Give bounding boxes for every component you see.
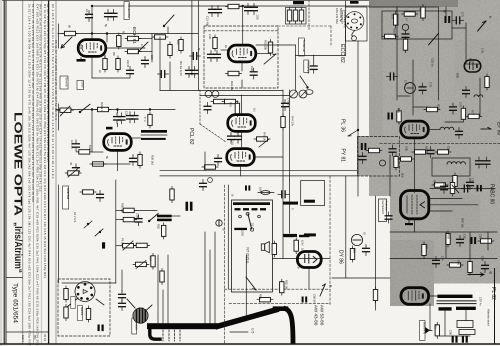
wire flyback bbox=[272, 258, 330, 260]
svg-text:C75: C75 bbox=[429, 82, 433, 87]
junction bbox=[91, 108, 93, 110]
svg-text:b 5: b 5 bbox=[251, 329, 255, 334]
dashed feed vertical bbox=[224, 185, 226, 343]
circle marker bbox=[208, 178, 213, 183]
svg-text:R23 2M: R23 2M bbox=[230, 81, 234, 91]
svg-text:R70: R70 bbox=[391, 14, 395, 19]
coil circle bbox=[380, 160, 386, 166]
resistor R74 bbox=[403, 37, 407, 53]
wire vertical mid bbox=[412, 60, 414, 115]
tube ECH81 Rö1 bbox=[78, 40, 106, 57]
arrow K bbox=[320, 284, 325, 296]
table column line 3 bbox=[40, 0, 42, 344]
resistor R11 bbox=[179, 37, 183, 53]
capacitor C84 bbox=[433, 257, 440, 268]
vert output transformer core bars bbox=[186, 202, 189, 211]
tube ECC82 triode a bbox=[228, 45, 256, 62]
wire r bbox=[256, 53, 271, 55]
label box Bildfang bbox=[63, 186, 69, 209]
svg-text:Gl: Gl bbox=[363, 232, 367, 235]
svg-text:C97 4n: C97 4n bbox=[479, 297, 483, 306]
svg-text:PY 81: PY 81 bbox=[340, 149, 346, 163]
svg-text:S2: S2 bbox=[251, 223, 255, 227]
capacitor bbox=[142, 57, 149, 68]
wire osc vertical bbox=[242, 6, 244, 44]
capacitor C40 bbox=[204, 103, 211, 114]
svg-text:6,3V: 6,3V bbox=[301, 240, 305, 246]
table outer line bbox=[55, 0, 57, 344]
wire long vertical B bbox=[289, 90, 291, 180]
wire socket feed bbox=[345, 0, 347, 7]
capacitor C3 bbox=[110, 10, 117, 21]
junction bbox=[91, 32, 93, 34]
svg-text:R76: R76 bbox=[437, 104, 441, 109]
wire g1 bbox=[221, 49, 228, 51]
sheet right border bbox=[494, 268, 496, 344]
svg-text:B: B bbox=[222, 229, 226, 231]
capacitor mains bbox=[278, 191, 289, 198]
svg-text:C41: C41 bbox=[231, 140, 235, 145]
resistor bbox=[168, 42, 172, 58]
voltage selector lever bbox=[248, 214, 252, 229]
svg-text:„Iris/Atrium“: „Iris/Atrium“ bbox=[12, 222, 23, 273]
potentiometer P3 bbox=[120, 244, 136, 248]
wire left edge bbox=[58, 185, 60, 283]
resistor R77 bbox=[461, 106, 465, 122]
svg-text:C21 40p: C21 40p bbox=[206, 16, 210, 27]
resistor R91 bbox=[435, 322, 439, 338]
svg-text:C83: C83 bbox=[479, 234, 483, 239]
switch S2 bbox=[149, 213, 158, 221]
svg-text:Type 651/654: Type 651/654 bbox=[12, 283, 19, 323]
capacitor C24 bbox=[208, 51, 215, 62]
wire PL82 to yoke bbox=[429, 295, 438, 297]
pot circle b bbox=[299, 90, 307, 98]
capacitor C80 bbox=[389, 145, 396, 156]
svg-text:Kanalwähler: Kanalwähler bbox=[127, 3, 131, 18]
socket top cap bbox=[350, 1, 359, 4]
capacitor C31 bbox=[118, 113, 125, 124]
shielded coil circle bbox=[405, 83, 416, 94]
capacitor C2 bbox=[105, 10, 112, 21]
resistor R4 bbox=[117, 33, 121, 49]
svg-text:P3 1M: P3 1M bbox=[121, 238, 125, 247]
linearity box bbox=[457, 321, 473, 328]
svg-text:ECH 81: ECH 81 bbox=[131, 27, 137, 44]
resistor R85 bbox=[446, 231, 450, 247]
heater winding bars bbox=[284, 235, 294, 237]
resistor R20 bbox=[226, 4, 242, 8]
svg-text:C48: C48 bbox=[481, 48, 485, 53]
svg-text:C28: C28 bbox=[250, 66, 254, 71]
junction bbox=[106, 32, 108, 34]
PABC ground stub bbox=[408, 219, 410, 223]
grid cap bold bbox=[106, 127, 113, 130]
capacitor bbox=[119, 300, 126, 311]
CRT neck down curve bbox=[150, 329, 160, 339]
tube PABC80 bbox=[401, 191, 429, 219]
svg-text:220V: 220V bbox=[241, 230, 245, 236]
tube PY81 Rö6 bbox=[227, 149, 255, 166]
resistor vert amp bbox=[170, 187, 174, 203]
wire bbox=[256, 44, 296, 46]
svg-text:R44 27k: R44 27k bbox=[291, 116, 295, 127]
N arrow bbox=[452, 185, 459, 193]
electrolytic C60 bbox=[302, 297, 304, 303]
capacitor C41 bbox=[228, 132, 235, 143]
svg-text:Ablenkeinheit: Ablenkeinheit bbox=[487, 309, 491, 326]
dashed gang line bbox=[199, 90, 201, 124]
svg-text:R97 1M: R97 1M bbox=[461, 218, 465, 228]
resistor R5 bbox=[125, 36, 141, 40]
svg-text:R50 56k: R50 56k bbox=[121, 203, 125, 214]
svg-text:NT 2023 b: NT 2023 b bbox=[246, 248, 250, 264]
svg-text:Tr 2: Tr 2 bbox=[143, 117, 147, 122]
tube DY86 bbox=[297, 252, 321, 268]
svg-text:85 31 07 4 SW 208 64 12 95 3 K: 85 31 07 4 SW 208 64 12 95 3 KB 417 52 0… bbox=[54, 40, 58, 120]
diode arrow bbox=[425, 327, 430, 334]
table footer line bbox=[6, 331, 49, 333]
svg-text:R52: R52 bbox=[157, 224, 161, 229]
svg-text:5p: 5p bbox=[197, 48, 201, 51]
tube PCL82 triode Rö4 bbox=[104, 134, 132, 151]
svg-text:UKW: UKW bbox=[81, 82, 85, 89]
resistor R43 bbox=[254, 137, 270, 141]
wire arrow branch bbox=[348, 130, 358, 136]
components above PABC bbox=[441, 183, 448, 194]
capacitor C85 bbox=[482, 262, 489, 273]
IF strip box bbox=[286, 8, 307, 25]
transformer core line bbox=[141, 134, 167, 136]
svg-text:R22 30k: R22 30k bbox=[264, 40, 268, 51]
capacitor top fill bbox=[200, 180, 207, 191]
resistor R27 bbox=[299, 8, 303, 24]
resistor R31 bbox=[148, 112, 152, 128]
ball pointer bbox=[127, 299, 135, 308]
svg-text:C72: C72 bbox=[461, 12, 465, 17]
resistor bbox=[138, 152, 142, 168]
svg-text:Si: Si bbox=[231, 194, 235, 197]
capacitor fill bbox=[97, 191, 104, 202]
svg-text:R88: R88 bbox=[457, 260, 461, 265]
switch diag top-left bbox=[138, 42, 148, 52]
svg-text:60: 60 bbox=[68, 25, 72, 28]
wire w bbox=[117, 110, 119, 114]
wire tube top lead bbox=[91, 6, 93, 38]
resistor R61 bbox=[272, 241, 276, 257]
output transformer winding bar 1 bbox=[141, 130, 167, 133]
resistor R30 bbox=[95, 107, 111, 111]
electrolytic C83 bbox=[471, 237, 473, 244]
resistor R90 bbox=[350, 246, 354, 262]
svg-text:0,1: 0,1 bbox=[301, 248, 305, 252]
wire bus 232 bbox=[390, 231, 497, 233]
capacitor C82 bbox=[457, 236, 464, 247]
remote socket bbox=[345, 12, 364, 31]
svg-text:PL 36: PL 36 bbox=[340, 119, 346, 132]
gray wires bbox=[452, 27, 466, 29]
electrolytic C91 bbox=[462, 336, 464, 343]
wire i bbox=[139, 38, 152, 40]
arrow right mid bbox=[481, 128, 491, 130]
capacitor C20 bbox=[209, 6, 216, 17]
wire feed bbox=[332, 277, 390, 279]
resistor bbox=[64, 305, 68, 321]
svg-text:SW 4: SW 4 bbox=[21, 335, 25, 342]
svg-text:Bildrohr a.: Bildrohr a. bbox=[423, 322, 427, 335]
wire bottom bus bbox=[62, 282, 116, 284]
resistor R60 bbox=[294, 238, 298, 254]
svg-text:Gemeinsch.: Gemeinsch. bbox=[381, 201, 385, 216]
capacitor C33 bbox=[131, 112, 138, 123]
capacitor C87 bbox=[385, 212, 392, 223]
wire bbox=[92, 163, 130, 165]
capacitor C70 bbox=[402, 30, 409, 41]
svg-text:C81 2n5 R64: C81 2n5 R64 bbox=[335, 8, 339, 24]
resistor bbox=[90, 162, 106, 166]
svg-text:Bildrohr: Bildrohr bbox=[80, 307, 83, 316]
CRT face edge bbox=[275, 306, 286, 311]
svg-text:C80: C80 bbox=[405, 146, 409, 151]
tube PL36 Rö5 bbox=[228, 115, 256, 132]
CRT face arc bbox=[286, 309, 294, 342]
coil L3 bbox=[440, 127, 454, 129]
yoke dashes below neck bbox=[162, 330, 164, 341]
small box bbox=[432, 158, 470, 176]
capacitor C22 bbox=[245, 4, 252, 15]
capacitor C86 bbox=[363, 245, 370, 256]
svg-text:Rö 2a 6,3V: Rö 2a 6,3V bbox=[179, 61, 183, 76]
tube EF80 a bbox=[464, 60, 480, 72]
resistor R54 bbox=[151, 253, 155, 269]
svg-text:Tonblende: Tonblende bbox=[302, 40, 306, 53]
tiny switch marks bbox=[99, 231, 101, 233]
white label box Gemeinschaft bbox=[379, 199, 387, 222]
capacitor C76 bbox=[450, 103, 457, 114]
yoke mid lines bbox=[437, 300, 476, 302]
resistor R72 bbox=[421, 5, 425, 21]
svg-text:2x 217 12k 4,7k 100 2M 50k 1k: 2x 217 12k 4,7k 100 2M 50k 1k 0,1 25,0 3… bbox=[28, 4, 32, 346]
resistor R32 bbox=[76, 150, 92, 154]
resistor chain R40 bbox=[211, 99, 227, 103]
secondary bar bbox=[234, 228, 247, 230]
svg-text:C20: C20 bbox=[208, 34, 212, 39]
grey printed region (right block) bbox=[357, 0, 500, 306]
wire PABC out triple bbox=[429, 198, 462, 200]
svg-text:R85: R85 bbox=[447, 234, 451, 239]
svg-text:R81: R81 bbox=[425, 146, 429, 151]
svg-text:PCL 82: PCL 82 bbox=[188, 128, 194, 145]
CRT flare diagonal bbox=[218, 310, 276, 326]
wire s bbox=[241, 64, 243, 72]
wire long vertical A bbox=[282, 90, 284, 180]
electrolytic C90 bbox=[452, 336, 454, 343]
wire h bbox=[106, 47, 146, 49]
capacitor bbox=[130, 155, 137, 166]
wires into yoke bbox=[157, 255, 159, 323]
capacitor C42 bbox=[235, 132, 242, 143]
svg-text:R54: R54 bbox=[149, 256, 153, 261]
svg-text:C90: C90 bbox=[449, 330, 453, 335]
wire bus bottom 2 bbox=[160, 175, 357, 177]
svg-text:R84: R84 bbox=[433, 180, 437, 185]
capacitor C6 bbox=[190, 53, 201, 60]
wire v bbox=[92, 151, 103, 153]
svg-text:C52 5n: C52 5n bbox=[431, 58, 435, 67]
trimmer C bbox=[310, 62, 317, 73]
wire white strip vertical bbox=[375, 196, 377, 310]
svg-text:L4: L4 bbox=[405, 18, 409, 21]
svg-text:R87: R87 bbox=[425, 244, 429, 249]
svg-text:651: 651 bbox=[33, 335, 37, 340]
capacitor C35 bbox=[73, 164, 80, 175]
IF coil bold bar bbox=[293, 1, 304, 5]
twin cap cluster bbox=[205, 91, 212, 98]
mains transformer box bbox=[232, 200, 273, 292]
svg-text:Antenne: Antenne bbox=[385, 201, 389, 212]
dashed divider bbox=[380, 142, 500, 144]
svg-text:Rö9: Rö9 bbox=[469, 58, 473, 63]
svg-text:R2: R2 bbox=[122, 31, 126, 35]
resistor R6 bbox=[125, 49, 141, 53]
capacitor C1 bbox=[86, 11, 93, 22]
wire y2 bbox=[313, 55, 315, 62]
svg-text:R63: R63 bbox=[259, 294, 263, 299]
vert output winding bar 1 bbox=[157, 215, 172, 218]
coil L2 bbox=[474, 95, 483, 97]
label box under socket bbox=[132, 318, 137, 334]
svg-text:C82: C82 bbox=[463, 234, 467, 239]
title separator bbox=[6, 277, 23, 279]
capacitor C28 bbox=[250, 68, 257, 79]
wire bbox=[58, 104, 60, 130]
tube PL82 bbox=[401, 288, 429, 305]
potentiometer P1 bbox=[264, 54, 276, 64]
wire p long vertical bbox=[191, 0, 193, 75]
sheet left double border bbox=[3, 0, 5, 344]
IF box outline bbox=[382, 11, 452, 39]
svg-text:81 C4 17 n5 39 270 C9 5k6 44 2: 81 C4 17 n5 39 270 C9 5k6 44 2n 81 560 C… bbox=[31, 4, 35, 202]
wire l bbox=[104, 55, 106, 58]
svg-text:R43 1k: R43 1k bbox=[263, 132, 267, 141]
svg-text:0,8A: 0,8A bbox=[259, 187, 263, 193]
resistor white strip bbox=[373, 287, 377, 303]
resistor R42 bbox=[235, 101, 239, 117]
grey dark top bar bbox=[369, 0, 458, 7]
resistor R52 bbox=[162, 223, 166, 239]
capacitor fill bbox=[215, 155, 222, 166]
capacitor C72 bbox=[453, 17, 464, 24]
resistor bbox=[64, 286, 68, 302]
coil bumps bbox=[447, 162, 465, 164]
yoke lower bars bbox=[439, 307, 452, 310]
resistor R82 bbox=[398, 157, 414, 161]
svg-text:220: 220 bbox=[150, 55, 154, 60]
wire rail B bbox=[58, 33, 198, 35]
svg-text:PABC 80: PABC 80 bbox=[489, 184, 495, 204]
vert output winding bar 2 bbox=[157, 219, 172, 222]
svg-text:R38 1k2: R38 1k2 bbox=[151, 155, 155, 166]
sheet top border bbox=[2, 0, 369, 2]
svg-text:220: 220 bbox=[256, 15, 260, 20]
label box a bbox=[71, 297, 75, 309]
wire x bbox=[117, 124, 119, 127]
solid feed vertical bbox=[227, 185, 229, 289]
wire main vertical bbox=[115, 180, 117, 283]
resistor R25 bbox=[287, 8, 291, 24]
diode circle bbox=[351, 234, 362, 245]
grey darker mottles bbox=[369, 7, 383, 137]
resistor R44 bbox=[281, 114, 285, 130]
wire long vertical net bbox=[357, 41, 359, 196]
wire g bbox=[106, 34, 108, 43]
socket cable loop bbox=[352, 31, 355, 37]
output transformer winding bar 2 bbox=[141, 138, 166, 140]
wire supply rail bbox=[56, 109, 175, 111]
svg-text:LOEWE OPTA: LOEWE OPTA bbox=[12, 112, 24, 216]
electrolytic C78 bbox=[361, 143, 363, 150]
resistor R83 bbox=[453, 173, 457, 189]
socket arrows bbox=[67, 298, 78, 307]
resistor R55 bbox=[160, 269, 164, 285]
svg-text:Gl B: Gl B bbox=[297, 263, 301, 269]
svg-text:C82: C82 bbox=[447, 146, 451, 151]
remote socket box bbox=[346, 7, 368, 41]
resistor R62 bbox=[280, 279, 284, 295]
resistor R8 bbox=[116, 56, 120, 72]
capacitor C30 bbox=[114, 113, 121, 124]
antenna arrow bbox=[61, 37, 72, 48]
resistor R76 bbox=[424, 107, 440, 111]
arrow K top bbox=[478, 21, 486, 31]
wire q long vertical bbox=[197, 0, 199, 90]
wire bbox=[159, 37, 161, 91]
switch contact bbox=[80, 104, 90, 112]
primary winding bar bbox=[233, 202, 270, 205]
resistor R89 bbox=[468, 259, 472, 275]
label box fein bbox=[77, 81, 84, 90]
svg-text:Rö1: Rö1 bbox=[79, 44, 83, 50]
scan edge left bbox=[0, 0, 2, 346]
capacitor C43 bbox=[282, 100, 289, 111]
dashed extension bbox=[278, 25, 331, 27]
wire long left bbox=[345, 176, 347, 278]
svg-text:C76: C76 bbox=[459, 102, 463, 107]
CRT base socket bbox=[75, 282, 95, 302]
sheet bottom border bbox=[0, 343, 500, 345]
wire bbox=[289, 180, 291, 233]
wire y3 bbox=[296, 55, 346, 57]
resistor R80 bbox=[366, 148, 382, 152]
junction bbox=[91, 5, 93, 7]
resistor R63 bbox=[257, 298, 273, 302]
resistor R71 bbox=[402, 12, 418, 16]
label box Bereich bbox=[60, 76, 68, 89]
potentiometer P2 bbox=[259, 139, 269, 147]
capacitor bbox=[119, 291, 126, 302]
svg-text:26 04: 26 04 bbox=[43, 334, 47, 341]
wire gray vertical bbox=[396, 7, 398, 100]
wire py bottom bbox=[240, 167, 242, 176]
grey top bus wires bbox=[369, 6, 438, 8]
junction bbox=[242, 5, 244, 7]
label box b bbox=[78, 306, 83, 321]
wire bus bottom 1 bbox=[160, 170, 357, 172]
resistor R73 bbox=[382, 34, 398, 38]
resistor fill bbox=[80, 190, 96, 194]
capacitor C34 bbox=[73, 140, 80, 151]
svg-text:5k6: 5k6 bbox=[401, 173, 405, 178]
